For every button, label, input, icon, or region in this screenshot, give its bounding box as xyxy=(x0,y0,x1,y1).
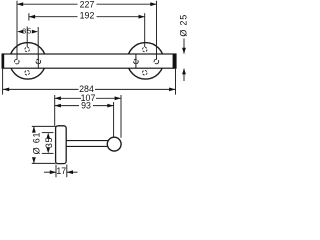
side view stem top line xyxy=(66,140,108,142)
dimension 284 xyxy=(3,84,175,94)
extension line left outer hole xyxy=(16,1,18,59)
dimension diameter 61 (flange) xyxy=(31,126,55,163)
extension line 107 right xyxy=(120,95,122,138)
dimension 227 xyxy=(17,0,157,9)
screw hole right rosette W xyxy=(134,59,139,64)
dimension 35 (hole spacing, side view) xyxy=(42,133,54,154)
screw hole right rosette E xyxy=(154,59,159,64)
side view wall plate xyxy=(56,126,67,164)
left rosette flange circle xyxy=(9,43,46,80)
screw hole left rosette S xyxy=(25,70,30,75)
extension line 35 right xyxy=(37,27,39,55)
dimension 93 xyxy=(55,101,114,111)
svg-text:35: 35 xyxy=(22,26,32,35)
screw hole left rosette W xyxy=(14,59,19,64)
screw hole left rosette N xyxy=(25,47,30,52)
bar left end cap xyxy=(2,54,5,69)
joint line left holder xyxy=(37,54,39,68)
extension line right outer hole xyxy=(156,1,158,59)
dimension 107 xyxy=(55,93,121,103)
screw hole right rosette S xyxy=(142,70,147,75)
side view bar cross-section circle xyxy=(107,137,121,151)
extension line 192 left xyxy=(28,13,30,20)
screw hole right rosette N xyxy=(142,47,147,52)
extension line 192 right xyxy=(144,13,146,47)
extension line 93 right xyxy=(113,102,115,137)
dimension diameter 25 (bar) xyxy=(179,14,189,81)
extension line wall plane xyxy=(54,95,56,126)
svg-text:35: 35 xyxy=(44,137,54,148)
extension line 284 right xyxy=(175,69,177,95)
right rosette flange circle xyxy=(127,43,164,80)
bar body (top view) xyxy=(2,54,176,68)
svg-text:Ø 61: Ø 61 xyxy=(31,132,41,155)
screw hole left rosette E xyxy=(36,59,41,64)
center line left rosette xyxy=(26,27,28,48)
svg-text:Ø 25: Ø 25 xyxy=(179,14,189,37)
svg-text:192: 192 xyxy=(80,11,95,21)
side view stem bottom line xyxy=(66,145,108,147)
svg-text:93: 93 xyxy=(81,101,91,111)
dimension 192 xyxy=(29,11,145,21)
dimension 17 (flange depth) xyxy=(44,165,78,178)
joint line right holder xyxy=(135,54,137,68)
svg-text:17: 17 xyxy=(56,166,66,176)
dimension 35 (hole spacing, top view) xyxy=(17,26,38,35)
extension line 284 left xyxy=(2,69,4,95)
bar right end cap xyxy=(173,54,176,69)
svg-text:227: 227 xyxy=(80,0,95,9)
